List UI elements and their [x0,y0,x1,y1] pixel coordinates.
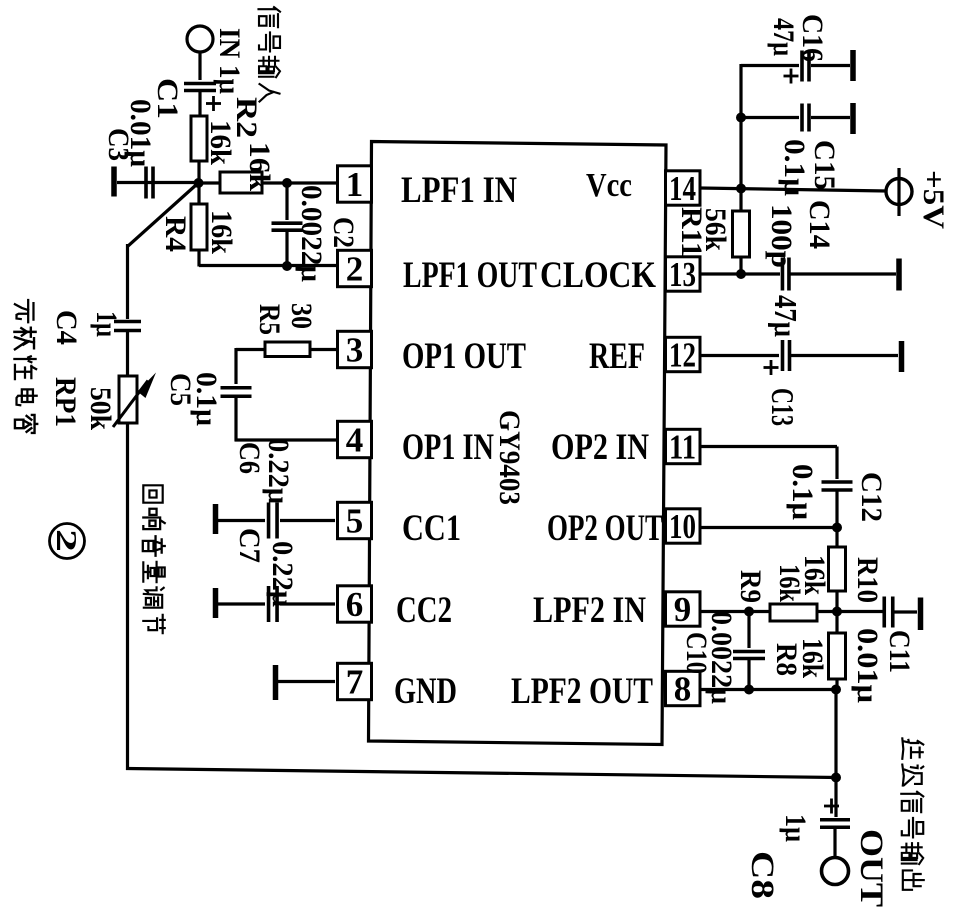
svg-text:0.22μ: 0.22μ [266,541,299,607]
svg-text:47μ: 47μ [767,18,800,56]
svg-text:OP2 OUT: OP2 OUT [547,508,663,549]
svg-text:0.0022μ: 0.0022μ [295,185,328,282]
svg-text:16k: 16k [204,120,237,165]
svg-text:9: 9 [674,590,692,629]
svg-text:REF: REF [589,336,645,377]
svg-text:0.1μ: 0.1μ [190,372,223,426]
svg-text:13: 13 [669,255,696,294]
svg-text:16k: 16k [205,210,238,254]
svg-text:2: 2 [346,250,364,289]
svg-text:C15: C15 [808,140,841,190]
svg-text:30: 30 [285,303,318,329]
svg-text:LPF1 OUT: LPF1 OUT [403,255,537,296]
svg-text:C4: C4 [50,310,83,345]
svg-text:3: 3 [346,331,364,370]
svg-text:14: 14 [669,169,696,208]
svg-text:16k: 16k [798,555,831,595]
svg-text:LPF1 IN: LPF1 IN [401,170,517,211]
svg-text:100p: 100p [765,204,798,268]
svg-text:11: 11 [669,428,696,467]
svg-text:12: 12 [669,336,696,375]
svg-text:C6: C6 [233,442,266,474]
svg-text:CC1: CC1 [402,508,461,549]
svg-text:1μ: 1μ [90,311,123,337]
svg-text:16k: 16k [796,638,829,678]
svg-text:47μ: 47μ [768,295,804,337]
svg-text:CC2: CC2 [396,590,452,631]
svg-text:GND: GND [394,671,457,712]
svg-text:6: 6 [346,585,364,624]
svg-text:50k: 50k [84,387,117,430]
svg-text:R11: R11 [675,207,708,257]
svg-text:R4: R4 [159,216,192,252]
svg-text:OUT: OUT [853,829,889,907]
svg-text:+5V: +5V [917,170,950,229]
svg-text:R5: R5 [253,304,286,335]
svg-text:10: 10 [669,507,696,546]
svg-text:IN 1μ: IN 1μ [213,28,246,94]
svg-text:LPF2 OUT: LPF2 OUT [511,671,653,712]
svg-text:C13: C13 [765,388,801,426]
svg-text:C2: C2 [327,217,360,248]
svg-text:OP2 IN: OP2 IN [551,427,649,468]
svg-text:C3: C3 [102,128,135,161]
svg-text:C8: C8 [744,851,780,899]
svg-text:Vcc: Vcc [586,167,632,204]
svg-text:OP1 IN: OP1 IN [402,427,494,468]
svg-text:LPF2 IN: LPF2 IN [533,590,646,631]
svg-text:C11: C11 [883,630,916,673]
svg-text:0.1μ: 0.1μ [778,139,811,196]
svg-text:0.0022μ: 0.0022μ [705,611,738,704]
svg-text:5: 5 [346,502,364,541]
svg-text:1μ: 1μ [779,814,812,842]
svg-text:OP1 OUT: OP1 OUT [402,336,526,377]
svg-text:C12: C12 [855,472,888,522]
svg-text:4: 4 [346,421,364,460]
svg-text:R10: R10 [851,557,884,603]
svg-text:7: 7 [346,663,364,702]
svg-text:GY9403: GY9403 [493,410,526,505]
svg-text:2: 2 [50,529,82,552]
svg-text:C14: C14 [803,200,836,249]
svg-text:0.1μ: 0.1μ [786,464,819,520]
svg-text:C7: C7 [233,528,266,563]
svg-text:8: 8 [674,670,692,709]
svg-text:CLOCK: CLOCK [540,255,656,296]
svg-text:R9: R9 [734,570,767,603]
svg-text:0.22μ: 0.22μ [262,438,295,504]
svg-text:RP1: RP1 [49,377,82,427]
svg-text:1: 1 [346,165,364,204]
svg-text:16k: 16k [243,142,276,191]
svg-text:0.01μ: 0.01μ [851,628,884,703]
